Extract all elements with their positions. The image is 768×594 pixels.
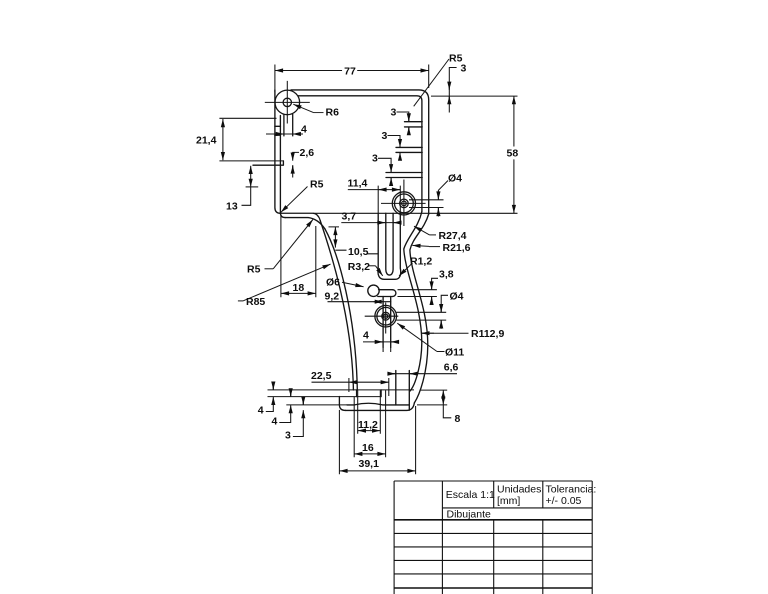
svg-text:77: 77 <box>344 66 356 78</box>
svg-text:[mm]: [mm] <box>497 495 520 507</box>
svg-text:+/- 0.05: +/- 0.05 <box>546 495 582 507</box>
svg-text:R5: R5 <box>247 264 261 276</box>
lower hole small <box>384 314 388 318</box>
dim 13 tick <box>246 186 259 188</box>
link bar bottom <box>378 296 393 298</box>
left wall outer <box>275 90 281 213</box>
svg-text:4: 4 <box>301 124 307 136</box>
rail ridge sides <box>357 390 382 397</box>
svg-text:Ø4: Ø4 <box>448 173 462 185</box>
grip back outer S-curve <box>410 214 429 403</box>
dim 18 extensions <box>281 216 316 298</box>
dim 58 extensions <box>431 95 518 97</box>
svg-text:10,5: 10,5 <box>348 246 369 258</box>
dim 10,5 line <box>334 227 336 248</box>
svg-text:Ø11: Ø11 <box>445 347 464 359</box>
dim 4 second bracket <box>279 389 290 422</box>
tab 1 on right wall <box>405 122 423 127</box>
dim 13 line <box>250 166 252 187</box>
svg-text:3: 3 <box>382 130 388 142</box>
table column lines <box>393 481 395 594</box>
dim 3 top-right arrows <box>448 82 450 90</box>
dim Ø4 upper extensions <box>409 200 444 208</box>
dim 77 extension lines <box>275 65 429 93</box>
shelf inner edge <box>285 218 325 229</box>
wall notch lines 2,6 <box>253 161 283 165</box>
dim 10,5 ticks <box>329 227 379 254</box>
lower hole centerlines <box>365 303 399 334</box>
dim 4 slot arrows <box>277 133 284 135</box>
dim 3 tab2 bracket <box>388 136 401 161</box>
svg-text:Unidades: Unidades <box>497 484 541 496</box>
leader R1,2 <box>399 263 412 276</box>
dim 11,4 line <box>348 189 401 191</box>
upper hole boss outer <box>392 192 415 215</box>
dim 3 tab1 bracket <box>397 112 409 134</box>
leader R85 <box>238 300 244 302</box>
dim 21,4 line <box>222 119 224 160</box>
svg-text:R5: R5 <box>310 179 324 191</box>
upper hole small <box>402 201 407 206</box>
svg-text:R21,6: R21,6 <box>443 242 471 254</box>
svg-text:3,7: 3,7 <box>342 210 357 222</box>
upper hole Ø4 <box>400 199 409 208</box>
dim 21,4 extensions <box>219 118 283 161</box>
svg-text:13: 13 <box>226 201 238 213</box>
rail bottom <box>346 403 415 410</box>
svg-text:11,2: 11,2 <box>358 419 378 431</box>
svg-text:3: 3 <box>285 430 291 442</box>
tab 3 on right wall <box>386 173 422 178</box>
dim 3,8 extensions <box>398 290 437 297</box>
dim 39,1 extensions <box>339 406 415 474</box>
svg-text:11,4: 11,4 <box>348 178 368 190</box>
rail left end <box>339 397 345 411</box>
svg-text:R112,9: R112,9 <box>471 328 504 340</box>
svg-text:39,1: 39,1 <box>359 458 380 470</box>
dim 9,2 line <box>328 301 392 303</box>
wall rung 1 <box>275 125 281 127</box>
grip back inner S-curve <box>404 212 422 391</box>
leader R5 lower left <box>265 268 274 270</box>
trigger guard front inner curve <box>325 229 357 390</box>
svg-text:R85: R85 <box>246 296 265 308</box>
left wall inner <box>280 116 285 218</box>
leader R5 mid left <box>281 187 308 213</box>
dim Ø4 lower extensions <box>397 312 447 320</box>
foot notch 6,6 <box>396 371 410 411</box>
svg-text:21,4: 21,4 <box>196 135 217 147</box>
leader Ø6 <box>342 282 364 286</box>
dim 2,6 arrows <box>292 153 294 161</box>
lower hole mid <box>377 307 395 325</box>
dim 3 bottom bracket <box>293 398 303 437</box>
svg-text:22,5: 22,5 <box>311 370 332 382</box>
dim 4 lower extensions <box>383 348 391 353</box>
dim 22,5 line <box>312 381 349 383</box>
svg-text:3,8: 3,8 <box>439 269 454 281</box>
dim Ø4 lower bracket <box>441 295 448 329</box>
inner top edge and inner right wall <box>298 96 422 212</box>
leader R27,4 <box>430 234 437 236</box>
svg-text:Dibujante: Dibujante <box>447 509 492 521</box>
dim 4 first bracket <box>266 383 274 412</box>
upper hole centerlines <box>381 180 426 227</box>
svg-text:16: 16 <box>362 442 374 454</box>
dim 58 line <box>513 96 515 213</box>
dim 4 lower line <box>363 341 399 343</box>
dim 2,6 bracket <box>293 152 299 177</box>
svg-text:Ø4: Ø4 <box>450 291 464 303</box>
svg-text:3: 3 <box>461 63 467 75</box>
dim 13 bracket <box>242 187 251 205</box>
upper hole boss inner <box>395 194 414 213</box>
pivot centerlines <box>265 81 310 124</box>
leader R112,9 <box>422 332 469 334</box>
pivot boss circle R6 <box>275 90 300 115</box>
shelf top edge (long line, also 58 extension) <box>281 213 321 220</box>
dim 3 top-right bracket <box>449 68 456 113</box>
dim Ø4 upper bracket <box>438 181 448 217</box>
dim 77 line <box>275 70 429 72</box>
leader R3,2 <box>368 265 375 267</box>
lower hole Ø11 <box>375 305 397 327</box>
svg-text:R27,4: R27,4 <box>439 230 467 242</box>
dim 18 line <box>281 292 316 294</box>
leader Ø11 <box>437 351 445 353</box>
svg-text:3: 3 <box>372 153 378 165</box>
dim 6,6 line <box>388 373 457 375</box>
dim 3 tab3 bracket <box>378 158 391 185</box>
svg-text:6,6: 6,6 <box>444 361 459 373</box>
svg-text:4: 4 <box>272 416 278 428</box>
svg-text:4: 4 <box>258 405 264 417</box>
link bar right cap <box>393 290 396 297</box>
leader R5 top right <box>414 59 449 106</box>
link bar top <box>379 289 393 291</box>
svg-text:2,6: 2,6 <box>300 147 315 159</box>
fork slot outer wall left <box>378 213 401 279</box>
svg-text:Escala 1:1: Escala 1:1 <box>446 489 495 501</box>
lower hole Ø4 <box>382 312 390 320</box>
dim 8 extensions <box>417 390 447 405</box>
dim 4 slot lines <box>266 133 303 135</box>
dim 8 bracket <box>443 405 451 418</box>
dim 11,4 extensions <box>378 186 400 214</box>
svg-text:3: 3 <box>391 106 397 118</box>
leader R6 <box>314 112 324 114</box>
tab 2 on right wall <box>396 147 422 152</box>
fork slot inner U <box>386 213 393 275</box>
dim 11,2 line <box>358 430 380 432</box>
dim 3,7 line <box>341 222 400 224</box>
lower slot walls 4mm <box>383 297 391 348</box>
trigger guard front outer curve <box>320 221 353 391</box>
svg-text:R6: R6 <box>326 107 340 119</box>
slot walls below pivot <box>284 114 293 136</box>
link ball <box>368 285 379 296</box>
rail left extension lines <box>268 390 415 405</box>
dim 39,1 line <box>339 470 415 472</box>
dim 3,8 bracket <box>432 278 438 304</box>
dim 22,5 extension <box>349 378 389 396</box>
dim 16 extensions <box>354 390 385 457</box>
rail slot bottom with R112,9 hump <box>347 403 409 405</box>
svg-text:Tolerancia:: Tolerancia: <box>546 484 597 496</box>
top edge outer <box>291 90 429 214</box>
svg-text:9,2: 9,2 <box>325 291 340 303</box>
wall rung 2 <box>275 134 281 136</box>
table outer and row lines <box>394 480 592 482</box>
dim 11,2 extensions <box>358 390 381 434</box>
svg-text:18: 18 <box>293 282 305 294</box>
svg-text:R1,2: R1,2 <box>410 256 432 268</box>
pivot hole <box>283 98 291 106</box>
dim 16 line <box>354 453 385 455</box>
leader R21,6 <box>429 246 440 248</box>
svg-text:R3,2: R3,2 <box>348 261 370 273</box>
svg-text:8: 8 <box>455 413 461 425</box>
svg-text:4: 4 <box>363 330 369 342</box>
svg-text:Ø6: Ø6 <box>326 277 340 289</box>
svg-text:58: 58 <box>507 148 519 160</box>
